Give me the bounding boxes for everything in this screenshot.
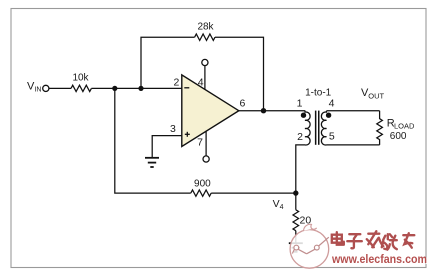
wire: [91, 87, 181, 89]
transformer T1 primary winding: [305, 111, 310, 145]
resistor 10k: [71, 73, 91, 92]
wire feedback bottom left: [115, 88, 191, 193]
svg-text:4: 4: [198, 77, 204, 89]
op-amp U1: [182, 75, 239, 147]
svg-text:6: 6: [239, 98, 245, 110]
node V4 junction: [293, 190, 298, 195]
node V4 label: [273, 198, 284, 211]
wire to 20 ohm: [295, 193, 297, 210]
wire output: [239, 110, 305, 112]
transformer core: [315, 111, 320, 145]
wire pin7: [205, 131, 207, 156]
watermark url: [331, 253, 428, 267]
wire pin3: [152, 136, 182, 157]
phasing dot secondary: [326, 113, 331, 118]
svg-text:5: 5: [329, 131, 335, 143]
resistor RLOAD: [377, 111, 415, 145]
svg-text:2: 2: [173, 76, 179, 88]
svg-text:OUT: OUT: [368, 91, 384, 100]
svg-text:600: 600: [390, 131, 407, 142]
svg-text:www.elecfans.com: www.elecfans.com: [331, 253, 427, 266]
wire: [215, 37, 264, 111]
resistor 28k: [195, 22, 215, 41]
wire: [295, 231, 297, 243]
node VOUT label: [361, 87, 385, 100]
wire pin4: [204, 66, 206, 90]
wire primary bottom lead: [296, 145, 305, 193]
ground bottom: [289, 243, 303, 252]
node B junction: [138, 86, 143, 91]
svg-text:10k: 10k: [72, 73, 89, 84]
wire: [211, 192, 296, 194]
resistor 20: [293, 210, 311, 231]
wire secondary bottom lead: [327, 144, 380, 146]
svg-text:7: 7: [197, 137, 203, 149]
svg-text:IN: IN: [34, 87, 41, 94]
node A junction: [112, 86, 117, 91]
node output junction: [261, 108, 266, 113]
svg-text:4: 4: [280, 204, 284, 211]
wire: [141, 37, 195, 88]
wire secondary top lead: [327, 110, 380, 112]
svg-text:2: 2: [297, 131, 303, 143]
terminal VIN: [43, 85, 49, 91]
svg-text:4: 4: [329, 98, 335, 110]
watermark text dianzifashaoyou: [332, 231, 416, 251]
svg-text:28k: 28k: [197, 22, 214, 33]
svg-text:1: 1: [297, 98, 303, 110]
svg-text:900: 900: [194, 178, 211, 189]
ground: [145, 158, 159, 167]
svg-text:LOAD: LOAD: [394, 122, 415, 131]
svg-text:V: V: [273, 198, 280, 210]
phasing dot primary: [301, 113, 306, 118]
svg-text:3: 3: [170, 123, 176, 135]
wire: [49, 87, 71, 89]
transformer T1 secondary winding: [321, 111, 326, 145]
terminal pin4: [202, 59, 208, 65]
resistor 900: [191, 178, 211, 196]
watermark logo circle: [290, 224, 329, 268]
node VIN label: [27, 81, 41, 94]
terminal pin7: [203, 156, 209, 162]
